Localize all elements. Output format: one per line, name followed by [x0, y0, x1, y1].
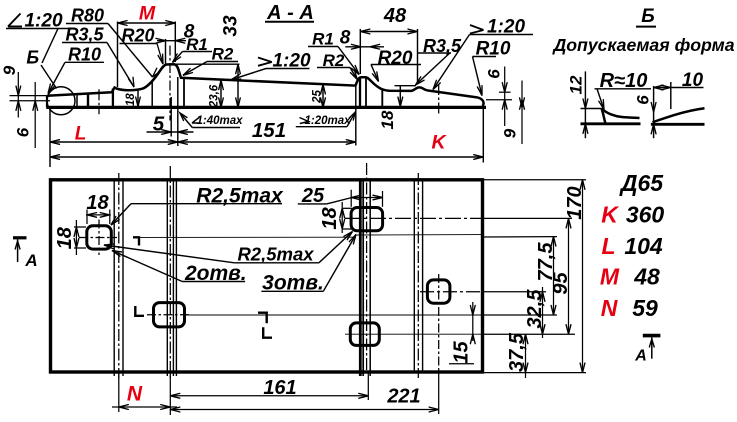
svg-text:Б: Б: [641, 6, 654, 27]
plan bottom dimension 221: [438, 372, 440, 414]
svg-text:161: 161: [263, 377, 296, 399]
svg-text:18: 18: [86, 192, 109, 214]
K dimension right extension: [482, 100, 484, 163]
svg-text:104: 104: [624, 233, 663, 259]
svg-text:R10: R10: [68, 45, 101, 65]
detail B sketch 2: extension verticals: [653, 86, 655, 138]
svg-text:18: 18: [319, 207, 341, 230]
detail B sketch 2: upper fork arm: [653, 108, 705, 122]
plan middle vertical solid 3: [369, 180, 371, 376]
svg-text:9: 9: [0, 65, 19, 75]
hole 1 horizontal centerline: [79, 237, 117, 239]
dimension 18 extension in section left (saddle depth): [137, 89, 139, 107]
svg-text:18: 18: [125, 93, 137, 106]
right side extension lines: [483, 179, 587, 181]
hole 2 row centerline: [345, 217, 483, 219]
svg-text:Б: Б: [26, 48, 39, 68]
svg-text:12: 12: [567, 75, 586, 94]
section inner vertical - hole 1 cut edge: [87, 94, 89, 107]
svg-text:K: K: [601, 202, 619, 228]
dimension 33: extension and dim line with arrows: [172, 63, 240, 65]
svg-text:59: 59: [632, 295, 658, 321]
svg-text:Допускаемая форма: Допускаемая форма: [551, 35, 734, 55]
label slope 1:20 right with slope glyph and leader: [470, 25, 484, 34]
dimension 6 right: extension and arrows: [486, 99, 512, 101]
detail B sketch 1: extension vertical: [584, 71, 586, 138]
svg-text:48: 48: [633, 264, 660, 290]
dimension 18 hole2: dim line + exts: [343, 207, 352, 209]
svg-text:1:20max: 1:20max: [304, 115, 351, 127]
section left edge: [46, 96, 48, 108]
svg-text:R80: R80: [71, 6, 104, 26]
dimension 6 arrows in detail: [651, 103, 656, 113]
svg-text:M: M: [600, 264, 620, 290]
detail B sketch 1: top reference line: [581, 108, 602, 110]
section profile top outline: [47, 64, 483, 106]
plan bottom dimension 161: [367, 372, 369, 400]
detail B sketch 1: curled edge profile: [602, 108, 606, 123]
section bottom line: [46, 106, 486, 109]
svg-text:R1: R1: [312, 30, 334, 49]
plan middle column axis dash-dot long: [366, 163, 368, 372]
svg-text:A: A: [24, 251, 37, 270]
hole 4 (25x18): [350, 323, 379, 346]
hole 2 (25x18): [351, 208, 383, 231]
section inner vertical - R20 base / hole 2 cut edge: [381, 90, 383, 107]
hole 4 row line: [345, 333, 483, 335]
svg-text:M: M: [139, 3, 156, 25]
right shoulder inner vertical a: [359, 79, 361, 107]
dimension 6 left: dim line: [34, 82, 36, 148]
flatness note 1:20max with small slope glyph: [300, 118, 309, 124]
plan vertical group B solid 2: [172, 180, 174, 376]
svg-text:32,5: 32,5: [524, 289, 546, 329]
detail B indicator circle: [47, 87, 75, 115]
dimension 9 left: extension lines: [10, 95, 51, 97]
svg-text:Д65: Д65: [619, 170, 664, 196]
svg-text:N: N: [127, 383, 143, 406]
svg-text:9: 9: [501, 128, 520, 138]
svg-text:L: L: [601, 233, 615, 259]
svg-text:48: 48: [383, 5, 407, 27]
dimension 18 hole1 width: ext + dim line: [86, 210, 88, 225]
peak axis dash-dot line: [169, 46, 171, 121]
section arrow A left: bar, line, arrowhead: [13, 236, 27, 239]
plan middle vertical solid 2: [362, 180, 364, 376]
svg-text:25: 25: [312, 90, 324, 104]
dimension 18 right: extension line at bump top: [395, 85, 417, 87]
plan vertical group D dash-dot: [417, 173, 419, 378]
plan vertical group B solid 1: [166, 180, 168, 376]
dimension 9 left: dim line and arrows: [17, 72, 19, 118]
dimension 151 right extension: [355, 86, 357, 146]
right shoulder inner vertical b: [365, 79, 367, 107]
svg-text:6: 6: [14, 127, 33, 137]
svg-text:23,6: 23,6: [209, 84, 221, 108]
svg-text:1:40max: 1:40max: [196, 115, 243, 127]
dimension 32,5 right: [542, 287, 544, 338]
dimension 48: extensions, dim line, arrows: [359, 29, 361, 74]
dimension 77,5 right: [553, 237, 555, 315]
svg-text:R3,5: R3,5: [65, 25, 104, 45]
plan middle vertical thick solid: [359, 180, 362, 376]
label slope 1:20 seat with slope glyph, underline, leader: [258, 58, 272, 66]
cut step corner mark 1: [133, 237, 139, 245]
plan view plate outline: [51, 180, 483, 372]
svg-text:5: 5: [153, 113, 165, 136]
plan bottom dimension N extension lines: [118, 372, 120, 412]
plan vertical group A dash-dot: [118, 173, 120, 379]
svg-text:R2: R2: [212, 45, 234, 64]
dimension 15: dim line with outside arrows and underline: [472, 302, 474, 341]
plan vertical group D solid right: [422, 180, 424, 372]
svg-text:15: 15: [451, 341, 473, 364]
hole 3 (25x18): [154, 303, 185, 327]
svg-text:95: 95: [550, 272, 572, 295]
dimension 170 right: [582, 180, 584, 373]
hole 1 (18x18): [87, 226, 112, 249]
section inner vertical - shoulder right base: [183, 78, 185, 106]
svg-text:151: 151: [252, 119, 286, 142]
dimension 9 right: dim line: [521, 81, 523, 145]
svg-text:R2,5max: R2,5max: [237, 244, 314, 265]
svg-text:N: N: [601, 295, 618, 321]
svg-text:6: 6: [634, 95, 653, 105]
plan vertical group B dash-dot (hole3 column axis): [169, 166, 171, 380]
detail B sketch 2: bottom line: [651, 123, 705, 126]
plan vertical group A solid left: [113, 180, 115, 376]
section inner vertical - saddle left edge: [112, 89, 114, 107]
label slope 1:20 top-left with underline and leader: [8, 14, 22, 27]
hole 5 vertical centerline: [438, 274, 440, 372]
dimension 37,5 right: [525, 334, 527, 378]
section arrow A bottom right: [643, 334, 661, 338]
cut step corner mark 4: [263, 327, 272, 338]
dimension 18 right: arrow line: [399, 86, 401, 107]
dimension M: extension lines and dim line: [117, 22, 119, 88]
plan bottom dimension N dim line: [112, 406, 177, 408]
svg-text:18: 18: [54, 226, 76, 249]
hole 5 (18x18): [427, 280, 450, 303]
dimension 10 dim line and arrows: [654, 87, 704, 89]
dimension 18 hole1 height: ext + dim line: [74, 226, 86, 228]
cut step corner mark 2: [135, 306, 144, 316]
svg-text:6: 6: [485, 69, 504, 79]
section inner vertical - saddle right edge: [151, 80, 153, 106]
plan vertical group A solid right: [122, 180, 124, 376]
plan vertical group D solid left: [413, 180, 415, 372]
svg-text:A: A: [634, 348, 647, 365]
svg-text:37,5: 37,5: [506, 332, 528, 372]
svg-text:360: 360: [626, 202, 665, 228]
dimension 5: dim line and arrows: [147, 131, 194, 133]
dimension 95 right: [568, 218, 570, 334]
svg-text:18: 18: [378, 110, 397, 129]
flatness note 1:40max with small angle glyph: [192, 117, 201, 123]
svg-text:R20: R20: [378, 48, 413, 69]
hole 3 horizontal centerline dash-dot: [147, 314, 191, 316]
svg-text:33: 33: [221, 15, 242, 37]
dimension 5: extension lines: [170, 97, 172, 137]
hole 5 row centerline: [420, 291, 483, 293]
hole 5 axis centerline in section: [438, 84, 440, 114]
svg-text:K: K: [431, 132, 447, 154]
svg-text:170: 170: [564, 186, 586, 219]
hole 1 axis centerline in section: [98, 89, 100, 114]
cut step corner mark 3: [258, 313, 267, 324]
middle row line right of hole 3: [186, 314, 483, 316]
svg-text:8: 8: [340, 28, 351, 49]
svg-text:R20: R20: [121, 26, 154, 46]
section inner vertical - hole cut edge left a: [76, 94, 78, 106]
K dimension left extension: [49, 108, 51, 167]
hole 1 vertical centerline: [98, 220, 100, 256]
svg-text:221: 221: [386, 386, 420, 408]
rail foot edge line upper (section trace): [140, 236, 357, 238]
dimension 23,6 arrow line: [220, 80, 222, 108]
detail B sketch 1: bottom line: [581, 122, 641, 125]
K dim line with arrows: [50, 156, 483, 158]
plan vertical group B solid 3: [175, 180, 177, 376]
L/151 shared dim line with arrows: [50, 141, 356, 143]
dimension 25 arrow line in section: [322, 84, 324, 107]
svg-text:10: 10: [682, 70, 704, 91]
dimension 12 arrows: [583, 99, 588, 109]
